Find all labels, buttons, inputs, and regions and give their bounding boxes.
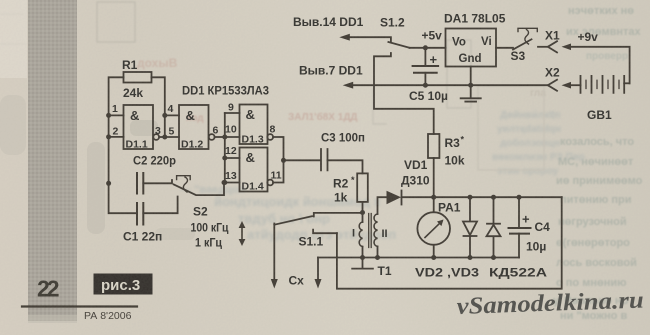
transformer T1 [352,197,392,278]
node Gnd junction [468,83,473,88]
connector X2 [545,66,571,91]
diode VD1 [387,158,434,205]
wire X2 to battery [571,84,581,86]
wire top bus [434,196,562,198]
wire pin4 [165,114,179,116]
wire mid rail pins 9-13 [224,113,226,183]
node PA1 bottom [431,255,436,260]
capacitor C5 [409,48,448,103]
wire pin9 [225,112,240,114]
resistor R1 [124,72,152,83]
node pin4 junction [162,113,167,118]
node pin3/pin5 junction [162,135,167,140]
wire outputs 8,11 join [273,137,283,183]
wire ground rail [318,257,519,259]
node VD2 top [468,195,473,200]
wire left rail (R1 left / pins 1,2 / C1,C2 left) [109,77,137,213]
switch S1.1 [274,213,362,249]
ground under DA1 [461,67,481,102]
switch S1.2 [374,16,434,135]
ground chassis stub under T1 [352,258,373,269]
gutter shadow strip [28,0,77,321]
battery GB1 [581,76,630,122]
node pin12 junction [222,156,227,161]
wire pin2 [109,136,124,138]
node R3/PA1 on bus [431,195,436,200]
node pin1 junction [106,113,111,118]
node C5 bottom [423,83,428,88]
wire R1 right to rail [152,77,165,137]
switch S2 [174,176,246,250]
capacitor C2 [133,154,176,194]
pale page margin top-left [0,0,27,78]
background bleed-through text, right column [553,5,643,322]
figure label box рис.3 [94,274,153,295]
scan smudges [87,142,105,234]
op-amp gate D1.4 [240,148,274,193]
node T1 primary bottom [360,255,365,260]
node R2/T1/S1.1 junction [360,210,365,215]
resistor R2 [333,173,368,212]
wire S1.1 bottom contact to top bus (outer loop) [337,197,562,289]
capacitor C1 [123,197,178,244]
diode VD3 [487,197,501,257]
regulator DA1 [444,12,506,67]
node pin2 junction [106,134,111,139]
op-amp gate D1.2 [179,105,225,151]
node C5 top on +5v rail [423,45,428,50]
node output join [281,158,286,163]
node pin13 junction [222,180,227,185]
ghost box outlines [97,2,135,42]
node VD3 top [491,195,496,200]
node pin10 junction [222,135,227,140]
node T1 secondary bottom [375,255,380,260]
wire pin5 [165,136,179,138]
capacitor C4 [509,197,551,257]
background bleed-through text, centre [180,109,585,242]
connector X1 [545,29,571,53]
footer rule [22,305,137,307]
op-amp gate D1.1 [124,105,165,151]
wire Vi to S3 [496,47,513,49]
node VD2 bottom [468,255,473,260]
terminal Cx right arrow [315,258,322,289]
wire pin10 [225,136,240,138]
wire pin13 [225,182,240,184]
meter PA1 [417,197,460,257]
wire pin12 [225,157,240,159]
wire +5v rail [410,47,446,49]
switch S3 [511,28,548,63]
node C4 top on bus [517,195,522,200]
node C2 junction [106,181,111,186]
resistor R3 [428,134,465,197]
capacitor C3 [284,131,366,174]
label Выв.14 DD1 with arrow [293,15,391,41]
wire +9v from battery to X1 [571,47,630,84]
diode VD2 [463,197,477,257]
terminal Cx left arrow [271,224,304,289]
label Выв.7 DD1 with arrow [299,64,548,89]
op-amp gate D1.3 [240,105,274,146]
node VD3 bottom [491,255,496,260]
wire pin1 [109,114,124,116]
